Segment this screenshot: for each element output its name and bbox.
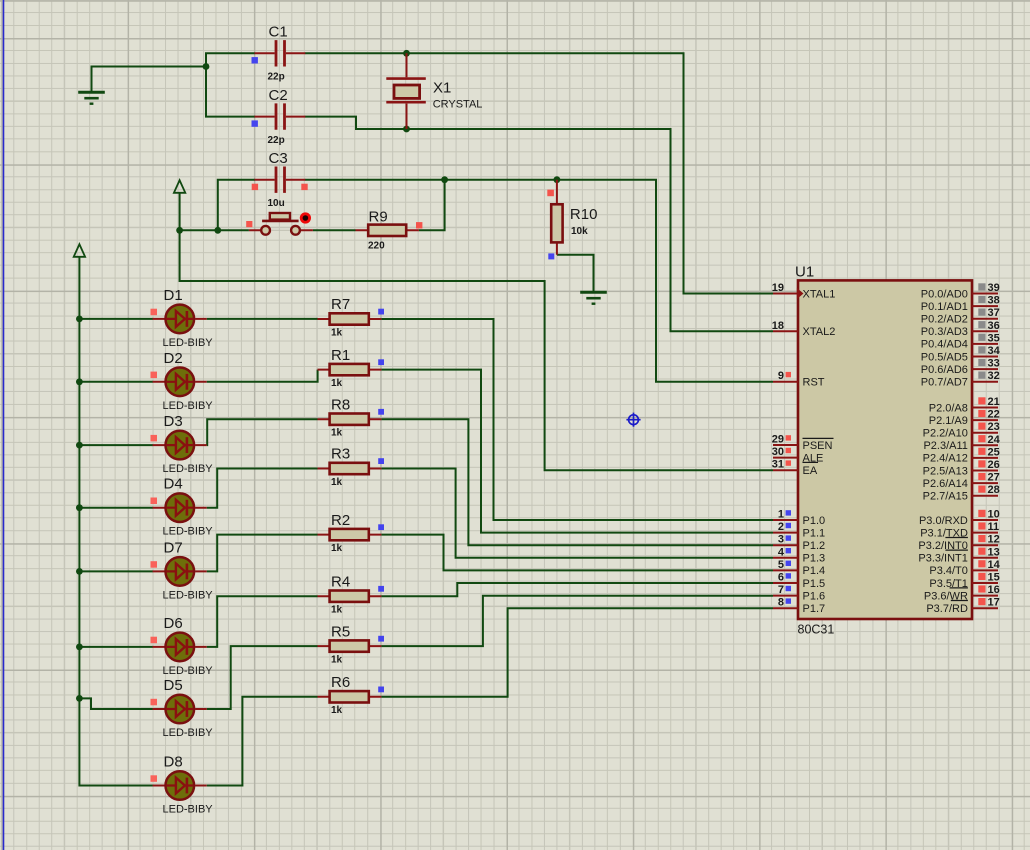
svg-text:LED-BIBY: LED-BIBY — [163, 526, 214, 538]
svg-text:LED-BIBY: LED-BIBY — [163, 727, 214, 739]
wire bus jog to D5 — [79, 698, 152, 709]
svg-text:24: 24 — [988, 434, 1001, 446]
svg-text:23: 23 — [988, 421, 1000, 433]
wire node A to C2 — [206, 67, 255, 117]
wire R3 to P1.3 — [381, 469, 773, 558]
pin 38 P0.1/AD1 — [921, 295, 1000, 313]
svg-text:LED-BIBY: LED-BIBY — [163, 337, 214, 349]
power terminal VCC2 — [74, 244, 85, 257]
svg-text:P2.6/A14: P2.6/A14 — [923, 478, 968, 490]
svg-text:R2: R2 — [331, 512, 350, 529]
pin 4 P1.3 — [773, 546, 825, 564]
svg-text:R10: R10 — [570, 206, 598, 223]
svg-text:31: 31 — [772, 459, 784, 471]
junction bus D4 — [76, 504, 83, 511]
svg-text:1: 1 — [778, 509, 784, 521]
svg-text:R6: R6 — [331, 674, 350, 691]
pin 13 P3.3/INT1 — [918, 546, 999, 564]
LED D4 — [151, 476, 214, 538]
pin 22 P2.1/A9 — [929, 409, 1000, 427]
wire GND1 to node A — [92, 67, 207, 94]
wire RST net — [305, 180, 773, 382]
svg-text:18: 18 — [772, 320, 784, 332]
pin 18 XTAL2 — [772, 320, 836, 338]
wire node A to C1 — [206, 53, 255, 66]
junction bus D6 — [76, 644, 83, 651]
wire R10 to GND2 — [557, 255, 594, 292]
svg-text:28: 28 — [988, 484, 1000, 496]
origin marker — [626, 413, 640, 427]
pin 27 P2.6/A14 — [923, 472, 1000, 490]
svg-text:15: 15 — [988, 572, 1000, 584]
junction bus D5 — [76, 695, 83, 702]
LED D5 — [151, 677, 214, 739]
crystal X1 — [386, 53, 482, 129]
pin 7 P1.6 — [773, 584, 825, 602]
junction bus D1 — [76, 316, 83, 323]
svg-text:17: 17 — [988, 597, 1000, 609]
ground GND1 — [78, 92, 105, 104]
svg-text:XTAL1: XTAL1 — [803, 288, 836, 300]
svg-text:X1: X1 — [433, 79, 451, 96]
capacitor C2 — [252, 87, 306, 146]
svg-text:P1.6: P1.6 — [803, 590, 826, 602]
svg-text:12: 12 — [988, 534, 1000, 546]
svg-text:R4: R4 — [331, 573, 350, 590]
LED D8 — [151, 754, 214, 816]
pin 30 ALE — [772, 446, 824, 464]
wire R5 to P1.6 — [381, 596, 773, 646]
pin 19 XTAL1 — [772, 282, 836, 300]
svg-text:P0.2/AD2: P0.2/AD2 — [921, 314, 968, 326]
svg-text:D1: D1 — [164, 287, 183, 304]
svg-text:1k: 1k — [331, 428, 343, 439]
capacitor C1 — [252, 24, 306, 83]
svg-text:P3.0/RXD: P3.0/RXD — [919, 515, 968, 527]
svg-text:1k: 1k — [331, 705, 343, 716]
wire R8 to P1.2 — [381, 419, 773, 545]
svg-text:27: 27 — [988, 472, 1000, 484]
pin 15 P3.5/T1 — [929, 572, 999, 590]
junction RST-R10 — [554, 176, 561, 183]
wire D6 to R4 — [207, 596, 318, 647]
svg-text:1k: 1k — [331, 378, 343, 389]
pin 16 P3.6/WR — [924, 584, 1000, 602]
junction X1 top — [403, 50, 410, 57]
svg-text:D4: D4 — [164, 476, 183, 493]
pin 23 P2.2/A10 — [923, 421, 1000, 439]
svg-text:22: 22 — [988, 409, 1000, 421]
push button — [246, 212, 313, 234]
pin 2 P1.1 — [773, 521, 825, 539]
svg-text:10k: 10k — [571, 226, 588, 237]
wire R4 to P1.5 — [381, 583, 773, 596]
pin 14 P3.4/T0 — [929, 559, 1000, 577]
svg-text:1k: 1k — [331, 605, 343, 616]
svg-text:2: 2 — [778, 521, 784, 533]
svg-text:R1: R1 — [331, 347, 350, 364]
junction bus D3 — [76, 442, 83, 449]
svg-text:11: 11 — [988, 521, 1000, 533]
svg-text:P3.7/RD: P3.7/RD — [926, 603, 968, 615]
pin 32 P0.7/AD7 — [921, 370, 1000, 388]
capacitor C3 — [252, 150, 308, 209]
pin 28 P2.7/A15 — [923, 484, 1000, 502]
svg-text:P1.1: P1.1 — [803, 527, 826, 539]
svg-text:D8: D8 — [164, 754, 183, 771]
svg-text:P2.3/A11: P2.3/A11 — [923, 440, 967, 452]
svg-text:P0.7/AD7: P0.7/AD7 — [921, 377, 968, 389]
wire D8 to R6 — [207, 697, 318, 786]
svg-text:13: 13 — [988, 546, 1000, 558]
pin 8 P1.7 — [773, 597, 825, 615]
svg-text:P3.3/INT1: P3.3/INT1 — [918, 553, 968, 565]
svg-text:P0.5/AD5: P0.5/AD5 — [921, 351, 968, 363]
svg-text:LED-BIBY: LED-BIBY — [163, 400, 214, 412]
svg-text:D7: D7 — [164, 539, 183, 556]
svg-text:4: 4 — [778, 546, 785, 558]
svg-text:P1.7: P1.7 — [803, 603, 826, 615]
power terminal VCC1 — [174, 180, 185, 193]
svg-text:LED-BIBY: LED-BIBY — [163, 589, 214, 601]
wire bus to D8 — [79, 698, 152, 785]
svg-text:U1: U1 — [795, 264, 814, 281]
svg-text:8: 8 — [778, 597, 784, 609]
svg-text:P3.4/T0: P3.4/T0 — [929, 565, 968, 577]
pin 1 P1.0 — [773, 509, 825, 527]
svg-text:21: 21 — [988, 396, 1000, 408]
resistor R5 — [318, 623, 385, 665]
junction A — [203, 63, 210, 70]
wire D5 to R5 — [207, 646, 318, 709]
svg-text:P2.7/A15: P2.7/A15 — [923, 491, 968, 503]
pin 3 P1.2 — [773, 534, 825, 552]
pin 39 P0.0/AD0 — [921, 282, 1000, 300]
svg-text:10: 10 — [988, 509, 1000, 521]
svg-text:P1.4: P1.4 — [803, 565, 826, 577]
svg-text:LED-BIBY: LED-BIBY — [163, 665, 214, 677]
wire reset row — [180, 229, 249, 231]
wire bus to D1 — [79, 318, 152, 320]
junction RST-R9 — [441, 176, 448, 183]
pin 37 P0.2/AD2 — [921, 307, 1000, 325]
svg-text:R5: R5 — [331, 623, 350, 640]
svg-text:14: 14 — [988, 559, 1001, 571]
pin 9 RST — [773, 370, 825, 388]
wire R1 to P1.1 — [381, 370, 773, 533]
LED D1 — [151, 287, 214, 349]
svg-text:P2.2/A10: P2.2/A10 — [923, 428, 968, 440]
pin 17 P3.7/RD — [926, 597, 999, 615]
svg-text:38: 38 — [988, 295, 1000, 307]
svg-text:1k: 1k — [331, 655, 343, 666]
junction VCC-reset — [176, 227, 183, 234]
svg-text:P1.0: P1.0 — [803, 515, 826, 527]
wire VCC2 stem — [78, 257, 80, 319]
svg-text:33: 33 — [988, 358, 1000, 370]
top edge line — [0, 0, 1030, 2]
svg-text:PSEN: PSEN — [803, 440, 833, 452]
svg-text:R9: R9 — [369, 208, 388, 225]
svg-text:P2.5/A13: P2.5/A13 — [923, 465, 968, 477]
wire R2 to P1.4 — [381, 535, 773, 571]
wire C2 right to XTAL2 — [305, 117, 773, 332]
svg-text:22p: 22p — [268, 135, 285, 146]
ground GND2 — [580, 292, 607, 304]
svg-text:C2: C2 — [269, 87, 288, 104]
pin 36 P0.3/AD3 — [921, 320, 1000, 338]
svg-text:P2.0/A8: P2.0/A8 — [929, 402, 968, 414]
wire bus to D6 — [79, 646, 152, 648]
microcontroller U1 body — [795, 264, 972, 637]
svg-text:P2.1/A9: P2.1/A9 — [929, 415, 968, 427]
resistor R6 — [318, 674, 385, 716]
svg-text:10u: 10u — [268, 198, 285, 209]
LED D3 — [151, 413, 214, 475]
pin 25 P2.4/A12 — [923, 446, 1000, 464]
wire VCC1 stem — [179, 193, 181, 231]
svg-text:16: 16 — [988, 584, 1000, 596]
junction bus D2 — [76, 378, 83, 385]
svg-text:P0.0/AD0: P0.0/AD0 — [921, 288, 968, 300]
pin 24 P2.3/A11 — [923, 434, 1000, 452]
svg-text:1k: 1k — [331, 543, 343, 554]
svg-text:R3: R3 — [331, 446, 350, 463]
pin 26 P2.5/A13 — [923, 459, 1000, 477]
wire D2 to R1 — [207, 370, 318, 382]
wire C3 left branch — [218, 180, 255, 231]
pin 21 P2.0/A8 — [929, 396, 1000, 414]
pin 10 P3.0/RXD — [919, 509, 1000, 527]
svg-text:22p: 22p — [268, 72, 285, 83]
svg-text:D5: D5 — [164, 677, 183, 694]
pin 6 P1.5 — [773, 572, 825, 590]
svg-text:P2.4/A12: P2.4/A12 — [923, 453, 968, 465]
svg-text:3: 3 — [778, 534, 784, 546]
junction bus D7 — [76, 568, 83, 575]
pin 5 P1.4 — [773, 559, 825, 577]
svg-text:P0.1/AD1: P0.1/AD1 — [921, 301, 968, 313]
svg-text:34: 34 — [988, 345, 1001, 357]
svg-text:37: 37 — [988, 307, 1000, 319]
pin 33 P0.6/AD6 — [921, 358, 1000, 376]
svg-text:P1.2: P1.2 — [803, 540, 826, 552]
svg-text:220: 220 — [368, 241, 385, 252]
svg-text:25: 25 — [988, 446, 1000, 458]
wire D3 to R8 — [207, 419, 318, 445]
svg-text:29: 29 — [772, 434, 784, 446]
resistor R4 — [318, 573, 385, 615]
sheet border (blue) — [3, 0, 5, 850]
wire bus to D4 — [79, 507, 152, 509]
svg-text:P0.3/AD3: P0.3/AD3 — [921, 326, 968, 338]
svg-text:R7: R7 — [331, 296, 350, 313]
svg-text:LED-BIBY: LED-BIBY — [163, 463, 214, 475]
svg-text:C1: C1 — [269, 24, 288, 41]
wire bus to D7 — [79, 570, 152, 572]
pin 34 P0.5/AD5 — [921, 345, 1001, 363]
svg-text:D3: D3 — [164, 413, 183, 430]
svg-text:6: 6 — [778, 572, 784, 584]
svg-text:26: 26 — [988, 459, 1000, 471]
svg-text:36: 36 — [988, 320, 1000, 332]
svg-text:LED-BIBY: LED-BIBY — [163, 804, 214, 816]
pin 29 PSEN — [772, 434, 834, 452]
resistor R1 — [318, 347, 385, 389]
pin 31 EA — [772, 459, 818, 477]
wire LED anode bus — [78, 319, 80, 699]
svg-text:CRYSTAL: CRYSTAL — [433, 99, 483, 111]
svg-text:32: 32 — [988, 370, 1000, 382]
wire R9 to RST net — [419, 180, 445, 231]
svg-text:1k: 1k — [331, 477, 343, 488]
wire bus to D3 — [79, 444, 152, 446]
svg-text:39: 39 — [988, 282, 1000, 294]
svg-text:P0.4/AD4: P0.4/AD4 — [921, 339, 968, 351]
wire button to R9 — [313, 229, 356, 231]
LED D6 — [151, 615, 214, 677]
svg-text:19: 19 — [772, 282, 784, 294]
resistor R3 — [318, 446, 385, 488]
LED D2 — [151, 350, 214, 412]
svg-text:35: 35 — [988, 332, 1000, 344]
svg-text:R8: R8 — [331, 396, 350, 413]
svg-text:D2: D2 — [164, 350, 183, 367]
wire C1 right to XTAL1 — [305, 53, 773, 293]
pin 12 P3.2/INT0 — [918, 534, 999, 552]
svg-text:30: 30 — [772, 446, 784, 458]
resistor R2 — [318, 512, 385, 554]
resistor R8 — [318, 396, 385, 438]
wire R7 to P1.0 — [381, 319, 773, 520]
svg-text:XTAL2: XTAL2 — [803, 326, 836, 338]
wire D1 to R7 — [207, 318, 318, 320]
svg-text:RST: RST — [803, 377, 825, 389]
svg-text:80C31: 80C31 — [798, 623, 835, 637]
svg-text:9: 9 — [778, 370, 784, 382]
wire R6 to P1.7 — [381, 608, 773, 697]
pin 11 P3.1/TXD — [920, 521, 999, 539]
wire D7 to R2 — [207, 535, 318, 572]
junction C3 tap — [214, 227, 221, 234]
wire bus to D2 — [79, 381, 152, 383]
svg-text:D6: D6 — [164, 615, 183, 632]
svg-text:EA: EA — [803, 465, 818, 477]
svg-text:C3: C3 — [269, 150, 288, 167]
pin 35 P0.4/AD4 — [921, 332, 1000, 350]
svg-text:1k: 1k — [331, 327, 343, 338]
svg-text:7: 7 — [778, 584, 784, 596]
resistor R9 — [356, 208, 423, 251]
svg-text:P1.5: P1.5 — [803, 578, 826, 590]
junction X1 bottom — [403, 126, 410, 133]
wire D4 to R3 — [207, 469, 318, 508]
svg-text:P0.6/AD6: P0.6/AD6 — [921, 364, 968, 376]
svg-text:5: 5 — [778, 559, 784, 571]
svg-text:P1.3: P1.3 — [803, 553, 826, 565]
resistor R7 — [318, 296, 385, 338]
wire VCC to EA — [180, 230, 773, 470]
LED D7 — [151, 539, 214, 601]
resistor R10 — [547, 180, 597, 260]
